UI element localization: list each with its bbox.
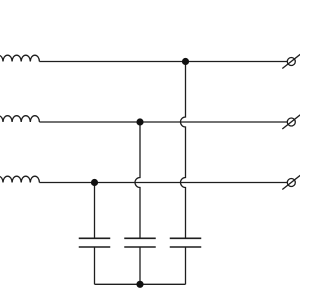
inductor L2 [0,116,39,122]
capacitor C3 [170,238,202,247]
wire bottom bus [95,283,186,285]
junction node phase 2 [136,118,143,125]
inductor L3 [0,176,39,182]
wire drop A [94,183,96,239]
wire phase 2 [39,121,287,123]
wire cap A to bus [94,247,96,284]
capacitor C1 [79,238,111,247]
wire cap C to bus [185,247,187,284]
wire drop C with crossover hops [181,62,186,239]
junction node phase 3 [91,179,98,186]
terminal 3 [282,175,300,189]
wire phase 3 [39,182,287,184]
wire phase 1 [39,61,287,63]
terminal 2 [282,115,300,129]
terminal 1 [282,54,300,68]
inductor L1 [0,55,39,61]
junction node phase 1 [182,58,189,65]
capacitor C2 [124,238,156,247]
junction node bus [136,281,143,288]
wire drop B with crossover hop [135,122,140,238]
wire cap B to bus [139,247,141,284]
